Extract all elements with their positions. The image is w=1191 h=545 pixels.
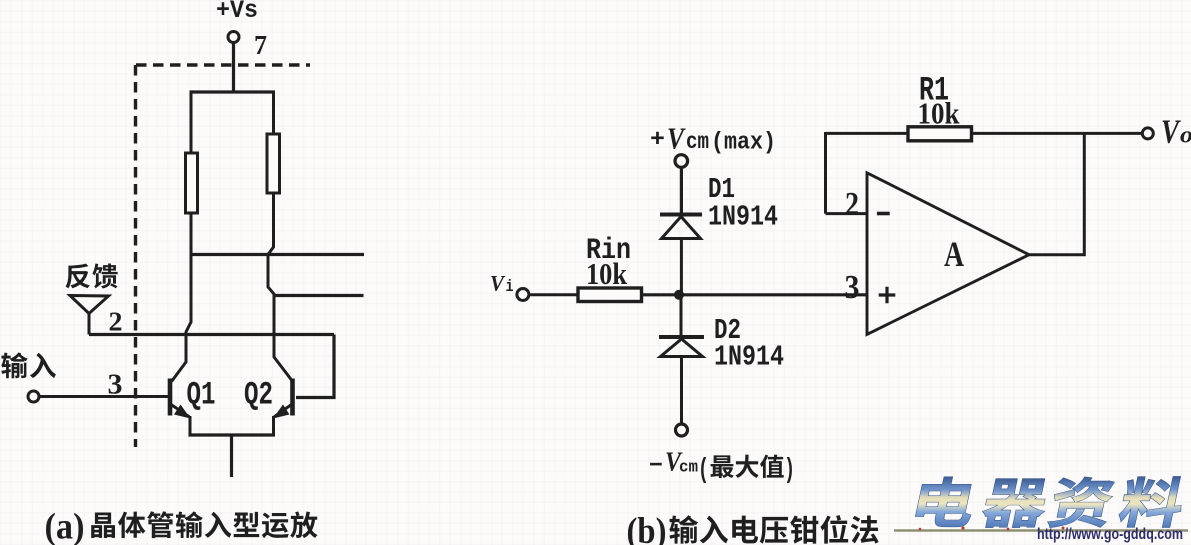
-Vcm label zuidazhi [711, 455, 784, 478]
terminal input [28, 391, 39, 402]
wire node to D2 [680, 295, 683, 336]
feedback antenna [70, 296, 109, 314]
svg-text:cm: cm [679, 459, 698, 478]
wire feedback left drop [824, 132, 827, 214]
caption b text [669, 515, 878, 544]
wire right resistor to Q2 collector [268, 193, 292, 380]
wire output [1029, 132, 1084, 255]
svg-text:V: V [667, 121, 686, 156]
svg-text:−: − [649, 453, 663, 480]
wire D1 to node [680, 239, 683, 296]
resistor R1 [908, 127, 972, 141]
transistor Q2 emitter [274, 405, 292, 418]
watermark dianqiziliao [913, 477, 1188, 528]
transistor Q2 base bar [290, 379, 295, 416]
svg-text:(a): (a) [45, 507, 85, 545]
svg-text:): ) [784, 455, 795, 486]
transistor Q1 base bar [168, 379, 173, 416]
svg-text:7: 7 [254, 30, 267, 60]
wire feedback loop [296, 335, 334, 398]
wire +Vcm to D1 [680, 168, 683, 214]
svg-text:2: 2 [845, 186, 859, 223]
svg-text:V: V [490, 271, 506, 296]
wire stub upper [191, 253, 364, 256]
terminal +Vcm [675, 155, 688, 168]
svg-text:Q1: Q1 [187, 377, 216, 414]
svg-text:1N914: 1N914 [708, 201, 778, 234]
resistor Rin [578, 288, 642, 302]
svg-text:http://www.go-gddq.com: http://www.go-gddq.com [1037, 526, 1183, 543]
caption a text [91, 511, 317, 538]
svg-text:V: V [1161, 114, 1181, 151]
dashed IC boundary top [136, 63, 310, 66]
diode D2 cathode bar [659, 335, 704, 339]
terminal Vo [1142, 128, 1153, 139]
wire feedback top [826, 132, 1143, 135]
wire inverting input [826, 212, 868, 215]
svg-text:(: ( [698, 455, 709, 486]
watermark underline [894, 529, 1188, 532]
svg-text:+Vs: +Vs [216, 0, 258, 25]
resistor left [186, 153, 198, 213]
fankui feedback label [66, 264, 118, 289]
wire emitter bus [189, 433, 276, 436]
wire Q1 emitter drop [189, 416, 192, 435]
svg-text:+: + [650, 127, 665, 154]
svg-text:o: o [1180, 123, 1191, 149]
wire Rin to op-amp [642, 293, 868, 296]
diode D2 [661, 339, 703, 357]
op-amp plus sign [879, 287, 896, 304]
svg-text:3: 3 [845, 269, 860, 306]
op-amp A [867, 173, 1029, 335]
wire left branch [190, 91, 193, 154]
dashed IC boundary left [134, 65, 137, 447]
wire supply rail [190, 90, 276, 93]
wire Q2 emitter drop [272, 416, 275, 435]
junction node [674, 290, 684, 300]
resistor right [267, 134, 280, 193]
svg-text:2: 2 [109, 307, 123, 337]
wire tail current source [230, 435, 233, 477]
wire input to Q1 base [39, 395, 168, 398]
wire D2 to -Vcm [680, 357, 683, 425]
wire left resistor to Q1 collector [172, 213, 192, 382]
svg-text:1N914: 1N914 [714, 341, 784, 374]
svg-text:10k: 10k [586, 256, 628, 291]
wire +Vs drop [232, 43, 235, 93]
op-amp minus sign [877, 212, 890, 216]
shuru input label [1, 352, 56, 378]
svg-text:cm: cm [686, 129, 709, 155]
watermark red specks [919, 526, 1065, 530]
wire feedback line [89, 333, 334, 336]
diode D1 [662, 217, 701, 239]
terminal Vi [517, 289, 529, 301]
transistor Q1 emitter [171, 405, 190, 418]
svg-text:(b): (b) [627, 511, 667, 545]
terminal -Vcm [676, 424, 688, 436]
terminal +Vs [228, 32, 239, 43]
svg-text:A: A [944, 234, 964, 274]
wire Vi to Rin [529, 293, 578, 296]
svg-text:(max): (max) [711, 130, 776, 157]
svg-text:Q2: Q2 [244, 377, 273, 414]
svg-text:i: i [506, 278, 514, 297]
diode D1 cathode bar [660, 213, 702, 217]
wire right branch [272, 91, 275, 135]
wire stub lower [274, 294, 364, 297]
